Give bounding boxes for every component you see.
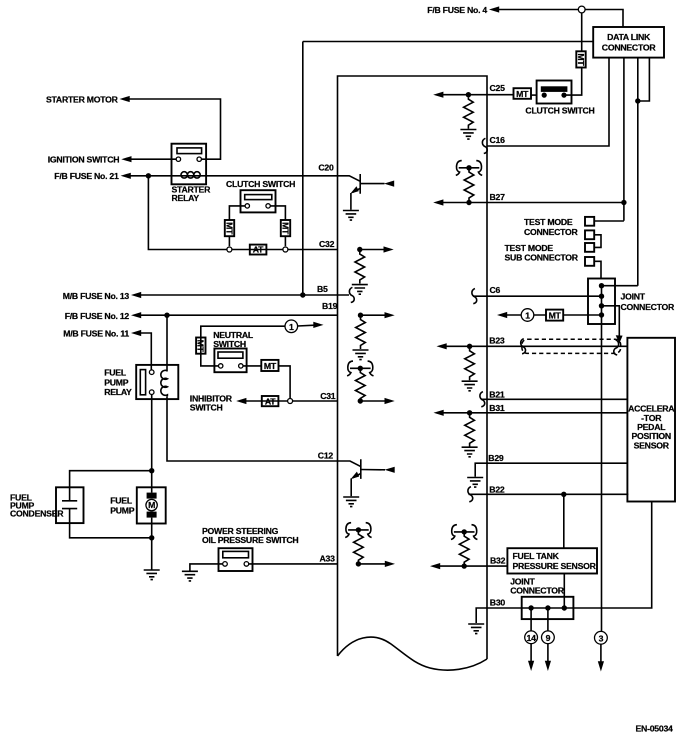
svg-text:EN-05034: EN-05034 (636, 724, 674, 734)
svg-text:M: M (148, 500, 155, 510)
wire neutral switch left leg (201, 354, 219, 366)
MT tag box left (224, 220, 234, 236)
wire sensor to lower joint connector (563, 574, 565, 609)
wire B27 row (443, 202, 624, 204)
node circled 14 (525, 631, 538, 644)
node B5 / DLC feed junction (300, 292, 305, 297)
resistor B27 pull-up (464, 170, 474, 202)
fuel pump condenser C1 (10, 487, 84, 523)
node MT/AT select right (283, 247, 288, 252)
neutral switch S3 (214, 349, 246, 373)
node MT/AT select C31 (288, 399, 293, 404)
node fuel pump top junction (149, 468, 154, 473)
node JC pin3 (shield) (599, 303, 604, 308)
svg-text:MT: MT (264, 361, 277, 371)
MT tag box right (280, 220, 290, 236)
svg-text:C6: C6 (490, 285, 501, 295)
arrow circled 14 down (530, 644, 532, 662)
node B22 to fuel tank pressure sensor (561, 492, 566, 497)
resistor C31 pull-up (356, 371, 366, 403)
wire clutch switch right leg (270, 206, 285, 220)
node fuel pump bottom junction (149, 535, 154, 540)
svg-text:C16: C16 (490, 135, 506, 145)
connector end C6 (472, 289, 477, 304)
MT tag box (clutch switch feed) (576, 51, 586, 67)
svg-text:OIL PRESSURE SWITCH: OIL PRESSURE SWITCH (202, 535, 298, 545)
clutch switch S4 (MT) (525, 81, 594, 116)
svg-text:PRESSURE SENSOR: PRESSURE SENSOR (513, 561, 597, 571)
wire test mode pins 2-3 bridge (594, 235, 601, 248)
svg-text:PUMP: PUMP (110, 505, 135, 515)
svg-text:C32: C32 (319, 239, 335, 249)
MT tag box C25 (514, 88, 532, 99)
node B23 (467, 344, 472, 349)
connector pair B32 resistor top (451, 525, 477, 540)
svg-text:9: 9 (546, 633, 551, 643)
wire JC pin1 to DLC (602, 285, 638, 287)
svg-text:RELAY: RELAY (172, 193, 200, 203)
svg-text:CONNECTOR: CONNECTOR (510, 586, 565, 596)
svg-text:C12: C12 (318, 450, 334, 460)
svg-text:RELAY: RELAY (104, 387, 132, 397)
wire B23 row (446, 345, 627, 347)
svg-text:F/B FUSE No. 21: F/B FUSE No. 21 (54, 171, 119, 181)
svg-text:B29: B29 (488, 453, 504, 463)
node JC pin2 (C6) (599, 294, 604, 299)
wire condenser top branch (70, 471, 152, 488)
svg-text:CLUTCH SWITCH: CLUTCH SWITCH (525, 105, 594, 115)
wire B22 node down to sensor (563, 494, 565, 548)
wire B32 row (440, 565, 508, 567)
wire clutch switch left leg (229, 206, 245, 220)
node B32 (462, 563, 467, 568)
shield B23 (dashed) (522, 339, 621, 353)
node B31 (467, 410, 472, 415)
MT tag box inhibitor (261, 360, 278, 371)
svg-text:C25: C25 (490, 83, 506, 93)
svg-text:MT: MT (196, 340, 206, 353)
svg-text:JOINT: JOINT (621, 291, 646, 301)
resistor B31 pull-down (465, 415, 475, 447)
svg-text:SUB CONNECTOR: SUB CONNECTOR (505, 253, 579, 263)
wire test mode pin1 (594, 220, 624, 222)
resistor A33 pull-up (354, 532, 364, 564)
accelerator pedal position sensor U2 (627, 338, 675, 502)
ground C25 resistor (460, 130, 476, 140)
svg-text:CLUTCH SWITCH: CLUTCH SWITCH (226, 179, 295, 189)
wire B22 row (469, 493, 629, 495)
wire JC3 pin2 to circled 9 (547, 608, 549, 631)
svg-text:MT: MT (549, 310, 562, 320)
node B27 (466, 200, 471, 205)
svg-text:B19: B19 (322, 301, 338, 311)
node C32 (357, 247, 362, 252)
connector end B5 (349, 287, 354, 302)
power steering oil pressure switch S2 (219, 548, 253, 571)
joint connector J2 box (588, 279, 615, 325)
joint connector J3 box (522, 597, 574, 619)
svg-text:B32: B32 (490, 556, 506, 566)
test mode sub connector pin 2 (585, 257, 594, 266)
wire DLC to B5 vertical feed (303, 41, 593, 43)
node B19 (358, 313, 363, 318)
connector B23 shield left (521, 339, 526, 354)
svg-text:TEST MODE: TEST MODE (524, 217, 573, 227)
AT tag box (250, 245, 267, 255)
svg-text:M/B FUSE No. 11: M/B FUSE No. 11 (63, 328, 129, 338)
svg-text:MT: MT (516, 89, 529, 99)
fuel pump M1 (110, 487, 166, 523)
svg-text:AT: AT (265, 396, 276, 406)
connector end B22 (468, 487, 473, 502)
wire M/B13 to B5 (141, 294, 349, 296)
arrow circled 3 down (600, 644, 602, 662)
svg-text:DATA LINK: DATA LINK (607, 32, 651, 42)
wire neutral switch right leg to MT tag (243, 365, 261, 367)
svg-text:MT: MT (576, 53, 586, 66)
node C31 (358, 398, 363, 403)
MT tag box neutral (196, 338, 206, 354)
svg-text:IGNITION SWITCH: IGNITION SWITCH (48, 155, 120, 165)
node fuel pump relay coil feed (164, 313, 169, 318)
svg-text:PUMP: PUMP (104, 377, 129, 387)
svg-text:STARTER MOTOR: STARTER MOTOR (46, 94, 119, 104)
connector pair C31 resistor top (347, 361, 373, 376)
wire DLC power vertical (302, 42, 304, 296)
wire DLC pin to C16 (487, 58, 609, 146)
wire neutral switch to circled 1 (201, 326, 285, 353)
node circled 1 (right) (521, 309, 534, 322)
node JC3 pin3 (562, 605, 567, 610)
arrow C32 out (360, 249, 385, 251)
wire B30 row (476, 502, 652, 624)
MT tag box circled 1 (546, 310, 563, 321)
wire fuel pump to ground (151, 518, 153, 570)
clutch switch S1 (241, 190, 276, 212)
svg-text:FUEL: FUEL (104, 368, 127, 378)
wire DLC pin to joint connector (637, 58, 639, 286)
resistor C32 pull-down (355, 252, 365, 284)
wire F/B fuse 4 (499, 10, 623, 28)
svg-text:B31: B31 (489, 403, 505, 413)
node A33 (356, 561, 361, 566)
starter relay R1 (172, 144, 212, 203)
svg-text:B30: B30 (490, 598, 506, 608)
wire C32 row from F/B21 junction (148, 176, 337, 250)
AT tag box inhibitor (262, 396, 279, 406)
wire clutch switch left to MT tag (531, 94, 537, 96)
wire DLC pin 4 (638, 58, 650, 101)
svg-text:CONDENSER: CONDENSER (10, 509, 64, 519)
wire relay coil feed vertical (166, 315, 168, 371)
node JC pin4 (circled 1) (599, 312, 604, 317)
resistor B19 pull-down (356, 318, 366, 350)
wire circled 1 row (507, 314, 602, 316)
wire F/B fuse 21 to relay coil and C20 line (131, 175, 338, 177)
test mode connector pin 1 (585, 217, 594, 226)
ground B30 (468, 624, 484, 634)
svg-text:TEST MODE: TEST MODE (505, 243, 554, 253)
wire JC pin3 to B23 shield (602, 306, 620, 336)
ground C32 resistor (352, 285, 368, 295)
svg-text:B5: B5 (317, 284, 328, 294)
wire ignition switch to starter relay contact (131, 158, 176, 160)
wire B31 row (443, 412, 627, 414)
wire sub connector to joint connector (594, 261, 601, 278)
wire inhibitor switch to C31 (246, 400, 338, 402)
svg-text:B22: B22 (489, 485, 505, 495)
svg-text:A33: A33 (320, 554, 336, 564)
svg-text:C20: C20 (318, 163, 334, 173)
wire to starter motor with left arrow (129, 99, 221, 159)
node JC3 pin2 (545, 605, 550, 610)
transistor Q1 (C20 input) (338, 174, 395, 220)
arrow A33 out (358, 563, 385, 565)
connector B23 shield right (614, 340, 619, 355)
ground power steering switch (182, 571, 198, 581)
wire switch to ground (190, 564, 223, 571)
svg-text:FUEL: FUEL (110, 496, 133, 506)
svg-text:MT: MT (224, 222, 234, 235)
wire B21 row (481, 398, 627, 400)
wire MT tag to C31 node (279, 366, 291, 399)
wire relay contact to fuel pump (151, 395, 153, 493)
wire condenser bottom branch (70, 523, 152, 538)
connector end B21 (480, 392, 485, 407)
svg-text:CONNECTOR: CONNECTOR (524, 227, 579, 237)
wire C25 row (443, 94, 514, 96)
wire relay coil to C12 (167, 396, 338, 461)
wire M/B11 to fuel pump relay contact (141, 333, 152, 370)
node circled 3 (595, 631, 608, 644)
svg-text:B27: B27 (490, 192, 506, 202)
svg-text:AT: AT (253, 245, 264, 255)
node open junction F/B4 (578, 6, 585, 13)
svg-text:14: 14 (527, 633, 537, 643)
svg-text:SENSOR: SENSOR (634, 440, 670, 450)
node DLC pins junction (635, 98, 640, 103)
node JC pin1 (599, 283, 604, 288)
arrow B19 out (361, 314, 386, 316)
fuel pump relay R2 (104, 365, 178, 399)
wire JC3 pin1 to circled 14 (530, 608, 532, 631)
node circled 1 (to joint connector) (285, 320, 298, 333)
connector pair A33 resistor top (345, 523, 371, 538)
ground fuel pump (144, 570, 160, 580)
ground B23 resistor (462, 381, 478, 391)
svg-text:MT: MT (280, 222, 290, 235)
wire junction down to MT tag (581, 13, 583, 51)
svg-text:1: 1 (525, 311, 530, 321)
wire switch to A33 (249, 563, 338, 565)
ground B29 (467, 478, 483, 488)
connector pair B27 resistor top (456, 161, 482, 176)
wire DLC pin to B27 / test mode connector (623, 58, 625, 221)
test mode connector pin 2 (585, 230, 594, 239)
svg-text:B23: B23 (489, 336, 505, 346)
transistor Q2 (C12 fuel pump driver) (338, 459, 395, 506)
data link connector J1 (593, 27, 664, 58)
resistor C25 pull-down (464, 97, 474, 129)
ECU bottom break (wavy line) (338, 637, 488, 670)
arrow from circled 1 (298, 324, 315, 327)
wire F/B12 to B19 (141, 314, 338, 316)
node circled 9 (542, 631, 555, 644)
svg-text:F/B FUSE No. 4: F/B FUSE No. 4 (427, 5, 487, 15)
arrow C31 out (360, 400, 385, 402)
fuel tank pressure sensor U3 (507, 548, 597, 573)
node B27 to DLC (621, 200, 626, 205)
arrow circled 9 down (547, 644, 549, 662)
node F/B21 junction (146, 173, 151, 178)
node MT/AT select left (227, 247, 232, 252)
svg-text:B21: B21 (489, 390, 505, 400)
svg-text:1: 1 (289, 322, 294, 332)
shield drain arrow (616, 335, 623, 343)
test mode sub connector pin 1 (585, 243, 594, 252)
ground B19 resistor (353, 350, 369, 360)
node JC3 pin1 (528, 605, 533, 610)
svg-text:FUEL TANK: FUEL TANK (513, 551, 560, 561)
ground B31 resistor (462, 447, 478, 457)
svg-text:CONNECTOR: CONNECTOR (621, 302, 676, 312)
svg-text:SWITCH: SWITCH (190, 402, 223, 412)
resistor B32 pull-up (459, 534, 469, 566)
ECU control module outline (left edge bus) (338, 76, 488, 659)
connector end C16 (482, 138, 487, 153)
resistor B23 pull-down (465, 349, 475, 381)
svg-text:SWITCH: SWITCH (213, 339, 246, 349)
wire MT tag to node (228, 236, 230, 246)
svg-text:M/B FUSE No. 13: M/B FUSE No. 13 (63, 291, 130, 301)
wire B29 row (475, 463, 627, 477)
svg-text:F/B FUSE No. 12: F/B FUSE No. 12 (65, 311, 130, 321)
wire MT tag to node (284, 236, 286, 246)
wire joint connector internal bus down to circled 3 (601, 286, 603, 632)
wire MT tag to clutch switch right contact (566, 68, 581, 96)
node C25 (466, 92, 471, 97)
svg-text:C31: C31 (320, 391, 336, 401)
wire C6 row (473, 295, 602, 297)
svg-text:3: 3 (599, 633, 604, 643)
svg-text:CONNECTOR: CONNECTOR (602, 43, 657, 53)
